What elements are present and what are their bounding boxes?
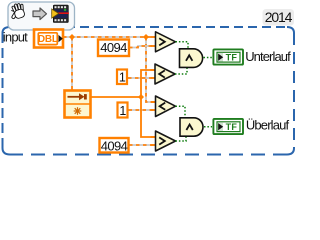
svg-text:input: input (3, 30, 28, 45)
indicator TF2 (213, 119, 243, 134)
svg-text:2014: 2014 (265, 9, 293, 25)
wire: raw bus down to comp3 (146, 37, 155, 102)
arrow tool icon (33, 8, 47, 20)
boolean wire comp3 to AND2 (176, 106, 186, 117)
comparator 2 less (155, 64, 175, 84)
constant 4094 bottom (100, 138, 129, 153)
comparator 3 less (156, 96, 176, 117)
svg-text:TF: TF (226, 53, 238, 63)
svg-text:Überlauf: Überlauf (246, 118, 290, 133)
boolean wire AND2 to TF2 (204, 126, 212, 128)
svg-text:4094: 4094 (100, 40, 127, 55)
constant 1 upper (117, 70, 127, 85)
svg-text:4094: 4094 (101, 138, 128, 153)
wire: input down to scale node (71, 37, 73, 90)
wire: 4094 bottom to comp4 (129, 144, 155, 146)
boolean wire comp4 to AND2 (176, 136, 187, 141)
svg-text:DBL: DBL (38, 34, 58, 45)
junction J3 (138, 94, 144, 100)
boolean wire AND1 to TF1 (204, 57, 213, 59)
wire stubs at comparator inputs (151, 37, 157, 145)
comparator 1 greater (156, 32, 176, 52)
AND gate 1 (180, 49, 203, 68)
constant 4094 top (98, 40, 129, 57)
AND gate 2 (180, 118, 203, 136)
boolean wire comp1 to AND1 (176, 42, 189, 48)
LabVIEW VI icon (film strip) (51, 5, 69, 23)
wire: constant 1 lower to comp3 (129, 109, 156, 111)
wire: scaled bus to comp2 and comp4 (141, 70, 155, 137)
function node: scale by power of 2 (65, 91, 91, 118)
comparator 4 greater (156, 131, 176, 151)
frame (blue dashed rounded border) (3, 27, 295, 155)
wire: scale node output (90, 96, 141, 98)
wire: input main horizontal (dashed orange) (63, 36, 155, 38)
indicator TF1 (213, 49, 243, 64)
junction J1 (69, 34, 75, 40)
boolean wire comp2 to AND1 (175, 68, 187, 75)
svg-text:TF: TF (226, 122, 238, 132)
svg-text:1: 1 (119, 71, 126, 85)
constant 1 lower (118, 103, 128, 118)
year tab 2014 (263, 9, 295, 26)
wire: 4094 top to comp1 (129, 46, 155, 48)
toolbar tab (8, 2, 75, 30)
input terminal DBL (34, 30, 63, 48)
svg-text:1: 1 (119, 104, 126, 118)
svg-text:Unterlauf: Unterlauf (245, 49, 291, 64)
wire: constant 1 upper to comp2 (128, 77, 155, 79)
hand tool icon (8, 2, 27, 21)
junction J2 (143, 34, 149, 40)
